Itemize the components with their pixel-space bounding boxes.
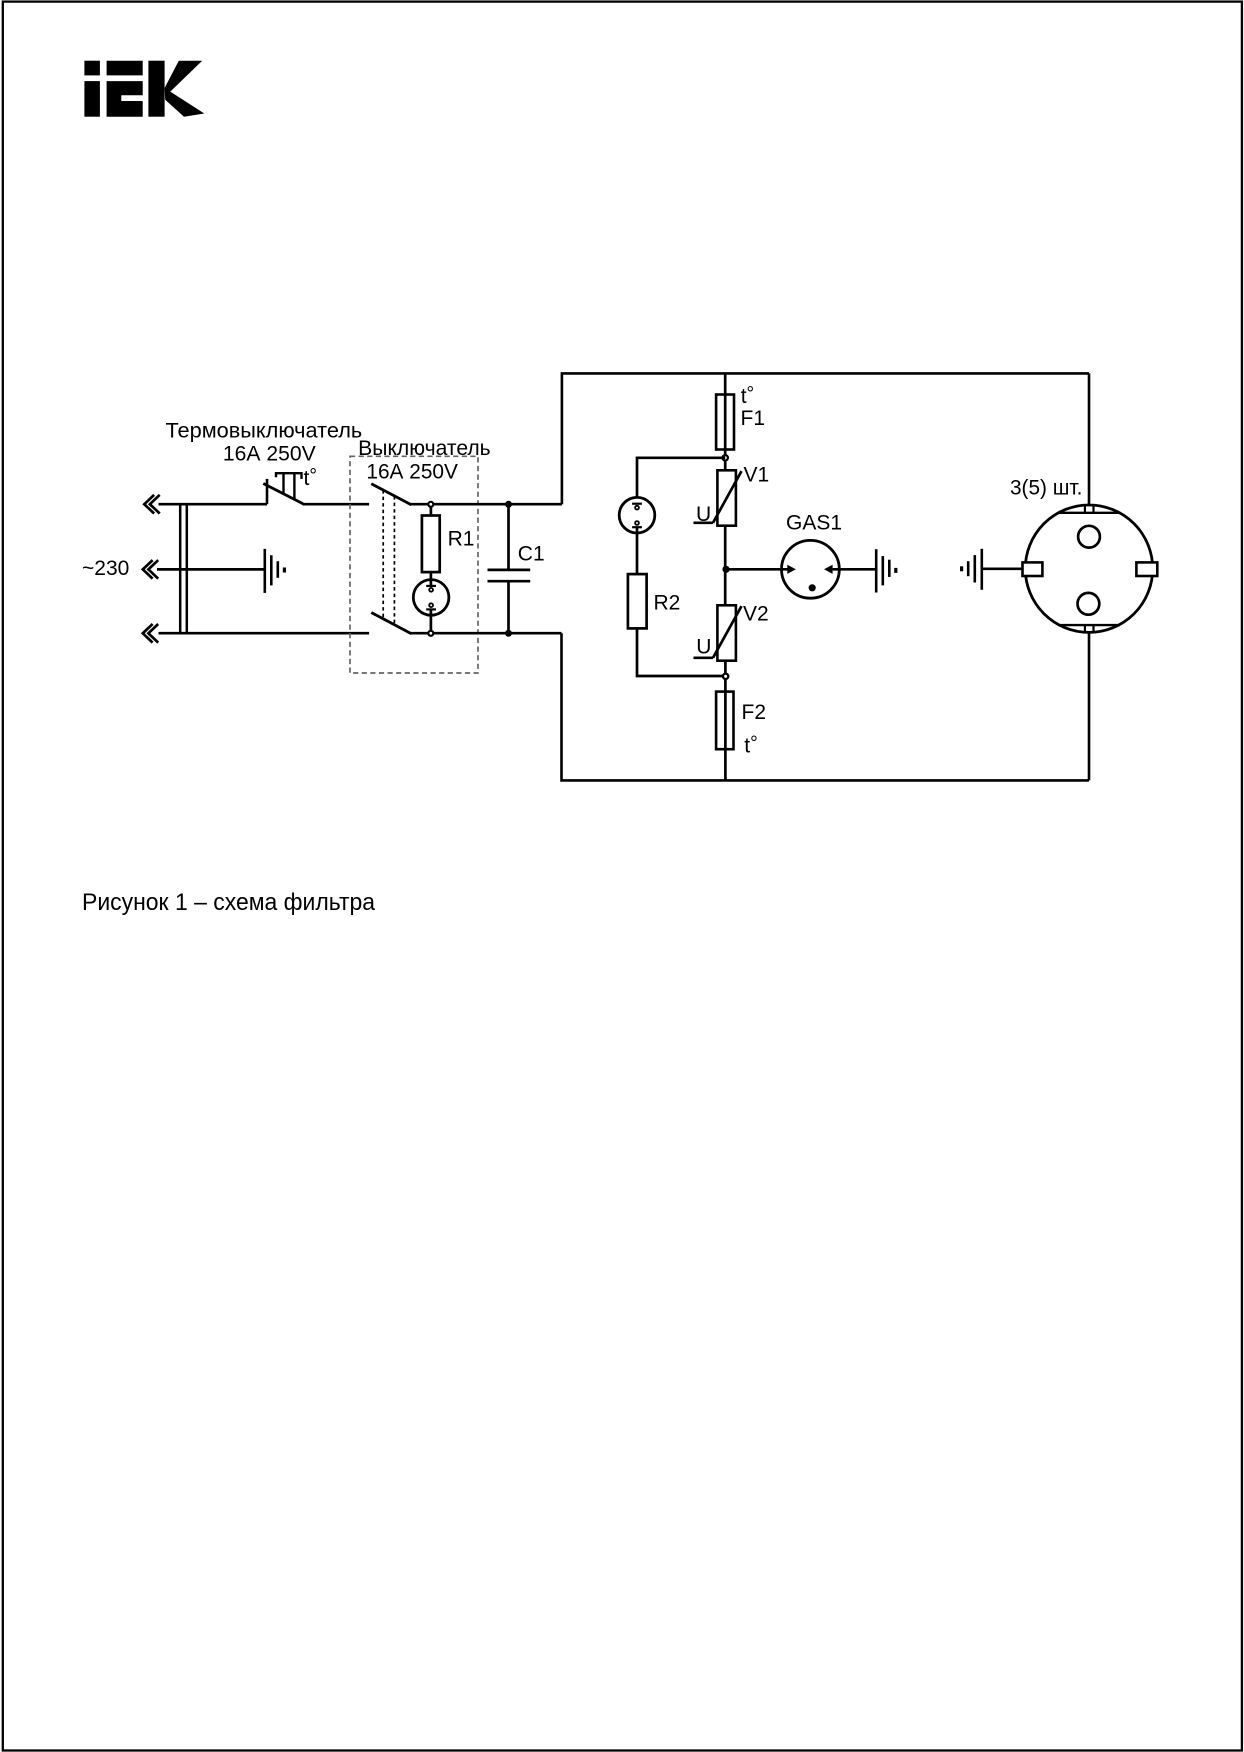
fuse F2 <box>716 692 733 750</box>
svg-text:t°: t° <box>304 465 317 490</box>
fuse F1 <box>716 395 734 450</box>
wire mid node to GAS1 <box>726 568 788 571</box>
wire R1 to lamp <box>430 572 433 586</box>
node ring below F1 <box>723 455 728 460</box>
wire PE middle input <box>157 568 265 571</box>
wire mid node to V2 <box>724 569 727 605</box>
svg-text:16А 250V: 16А 250V <box>366 460 458 483</box>
lamp HL1 <box>413 580 449 634</box>
switch pole top blade <box>371 484 411 505</box>
wire main vertical top <box>724 373 727 455</box>
cable double line <box>179 504 182 633</box>
wire branch top to lamp HL2 <box>637 458 725 498</box>
wire N bottom input <box>159 632 370 635</box>
svg-text:V2: V2 <box>743 603 769 626</box>
chevron connector top line <box>144 495 154 514</box>
node ring above F2 <box>723 674 728 679</box>
svg-text:U: U <box>696 635 711 658</box>
resistor R1 <box>422 516 440 573</box>
contact node bottom switch <box>428 631 433 636</box>
wire GAS1 to ground <box>833 568 877 571</box>
filter enclosure box <box>562 373 1090 780</box>
svg-text:U: U <box>696 503 711 526</box>
wire top switch to box <box>411 503 562 506</box>
ground symbol socket <box>962 549 982 590</box>
svg-text:Выключатель: Выключатель <box>358 437 491 460</box>
wire ground to socket <box>982 567 1025 570</box>
svg-text:V1: V1 <box>744 464 770 487</box>
ground symbol GAS1 <box>876 549 896 592</box>
varistor V2 <box>694 605 742 674</box>
contact node top switch <box>428 502 433 507</box>
wire bottom switch to box <box>411 632 562 635</box>
junction dot mid <box>722 566 729 573</box>
svg-text:F1: F1 <box>741 407 766 430</box>
wire node to F2 <box>724 679 727 781</box>
wire thermal to switch <box>303 503 370 506</box>
wire F1 node to V1 <box>724 460 727 470</box>
svg-text:R2: R2 <box>654 592 681 615</box>
svg-text:R1: R1 <box>448 528 475 551</box>
lamp HL2 <box>619 497 655 574</box>
IEK logo <box>84 61 204 117</box>
wire switch node to R1 <box>430 507 433 516</box>
resistor R2 <box>628 574 647 628</box>
dashed enclosure switch <box>350 456 478 673</box>
svg-text:3(5) шт.: 3(5) шт. <box>1010 476 1082 499</box>
svg-text:t°: t° <box>741 383 754 408</box>
svg-text:C1: C1 <box>518 543 545 566</box>
svg-text:16А 250V: 16А 250V <box>223 443 316 466</box>
chevron connector bottom line <box>143 624 153 643</box>
wire L top input <box>159 503 268 506</box>
ground symbol PE input <box>265 549 285 593</box>
svg-text:Термовыключатель: Термовыключатель <box>166 419 363 442</box>
varistor V1 <box>694 470 742 569</box>
capacitor C1 <box>488 504 531 633</box>
arrester GAS1 <box>782 540 840 598</box>
svg-text:t°: t° <box>744 733 757 758</box>
thermal switch <box>263 473 303 504</box>
switch pole bottom blade <box>371 613 411 634</box>
wire R2 to bottom node <box>637 628 726 676</box>
socket XS <box>1023 505 1158 632</box>
chevron connector middle line <box>143 560 153 579</box>
junction dot C1 bottom <box>505 630 512 637</box>
switch mechanical link dashed <box>382 490 384 618</box>
svg-text:GAS1: GAS1 <box>786 511 842 534</box>
svg-text:Рисунок 1 – схема фильтра: Рисунок 1 – схема фильтра <box>82 889 376 916</box>
junction dot C1 top <box>505 501 512 508</box>
svg-text:~230: ~230 <box>82 557 129 580</box>
svg-text:F2: F2 <box>742 701 767 724</box>
